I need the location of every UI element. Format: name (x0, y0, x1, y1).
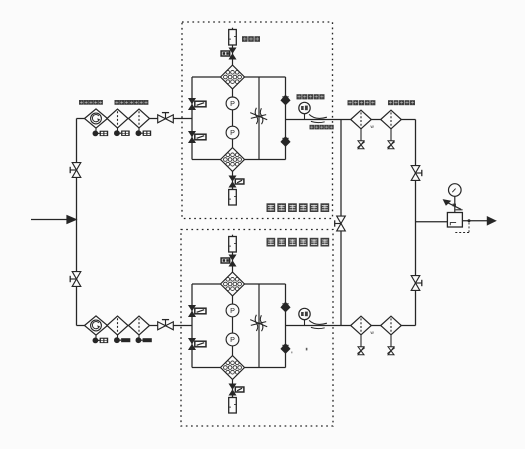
svg-text:P: P (230, 335, 235, 344)
svg-text:P: P (230, 99, 235, 108)
svg-text:P: P (230, 306, 235, 315)
svg-text:P: P (230, 128, 235, 137)
